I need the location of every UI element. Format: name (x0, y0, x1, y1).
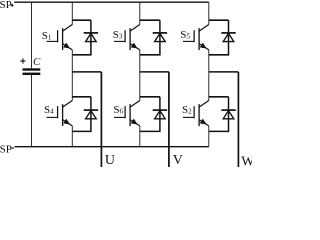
svg-text:SP: SP (0, 0, 12, 11)
wire: positive DC bus SP+ (14, 1, 209, 3)
capacitor C plates (23, 68, 41, 75)
wire: diode loop bottom (leg 2 bottom) (140, 130, 161, 132)
wire: phase midpoint vertical (leg 2) (139, 50, 141, 101)
diode D6 (across S6) (153, 97, 167, 132)
transistor S4 (IGBT) (47, 101, 73, 127)
transistor S2 (IGBT) (183, 101, 209, 127)
wire: capacitor top lead (31, 2, 33, 68)
wire: top device node horizontal to diode (leg 2) (140, 19, 160, 21)
transistor S5 (IGBT) (183, 25, 209, 51)
wire: diode loop bottom (leg 1 bottom) (72, 130, 91, 132)
svg-text:SP: SP (0, 143, 12, 155)
diode D2 (across S2) (221, 97, 235, 132)
wire: S5 collector lead from SP+ bus (208, 2, 210, 24)
wire: diode loop bottom (leg 3 top) (209, 54, 229, 56)
wire: S4 emitter lead to SP- bus (71, 126, 73, 147)
wire: output line W (237, 72, 239, 167)
svg-text:S3: S3 (113, 29, 123, 41)
svg-text:W: W (241, 154, 252, 167)
wire: output line V (168, 72, 170, 167)
transistor S6 (IGBT) (114, 101, 140, 127)
svg-text:S4: S4 (44, 104, 54, 116)
wire: top device node horizontal to diode (leg 3) (209, 19, 229, 21)
diode D5 (across S5) (221, 20, 235, 55)
svg-text:U: U (105, 153, 115, 167)
svg-text:V: V (173, 153, 183, 167)
svg-text:C: C (33, 56, 41, 68)
svg-text:S1: S1 (42, 30, 52, 42)
wire: phase midpoint vertical (leg 1) (71, 50, 73, 101)
wire: capacitor bottom lead (31, 75, 33, 147)
wire: diode loop bottom (leg 1 top) (72, 54, 91, 56)
wire: diode loop bottom (leg 3 bottom) (209, 130, 229, 132)
svg-text:S6: S6 (113, 104, 123, 116)
node U: midpoint tee (72, 71, 101, 73)
label SP- (0, 143, 14, 155)
svg-text:S5: S5 (180, 29, 190, 41)
wire: output line U (100, 72, 102, 167)
wire: bottom device node horizontal to diode (leg 1) (72, 96, 91, 98)
node W: midpoint tee (209, 71, 239, 73)
wire: top device node horizontal to diode (leg 1) (72, 19, 91, 21)
diode D1 (across S1) (84, 20, 98, 55)
wire: bottom device node horizontal to diode (leg 3) (209, 96, 229, 98)
wire: negative DC bus SP- (15, 146, 209, 148)
wire: S1 collector lead from SP+ bus (71, 2, 73, 24)
transistor S1 (IGBT) (47, 25, 73, 51)
label SP+ (0, 0, 14, 11)
diode D4 (across S4) (84, 97, 98, 132)
transistor S3 (IGBT) (114, 25, 140, 51)
node V: midpoint tee (140, 71, 169, 73)
wire: S2 emitter lead to SP- bus (208, 126, 210, 147)
wire: bottom device node horizontal to diode (leg 2) (140, 96, 160, 98)
wire: diode loop bottom (leg 2 top) (140, 54, 161, 56)
diode D3 (across S3) (153, 20, 167, 55)
wire: phase midpoint vertical (leg 3) (208, 50, 210, 101)
svg-text:S2: S2 (182, 104, 192, 116)
capacitor polarity + (20, 58, 25, 63)
wire: S3 collector lead from SP+ bus (139, 2, 141, 24)
wire: S6 emitter lead to SP- bus (139, 126, 141, 147)
